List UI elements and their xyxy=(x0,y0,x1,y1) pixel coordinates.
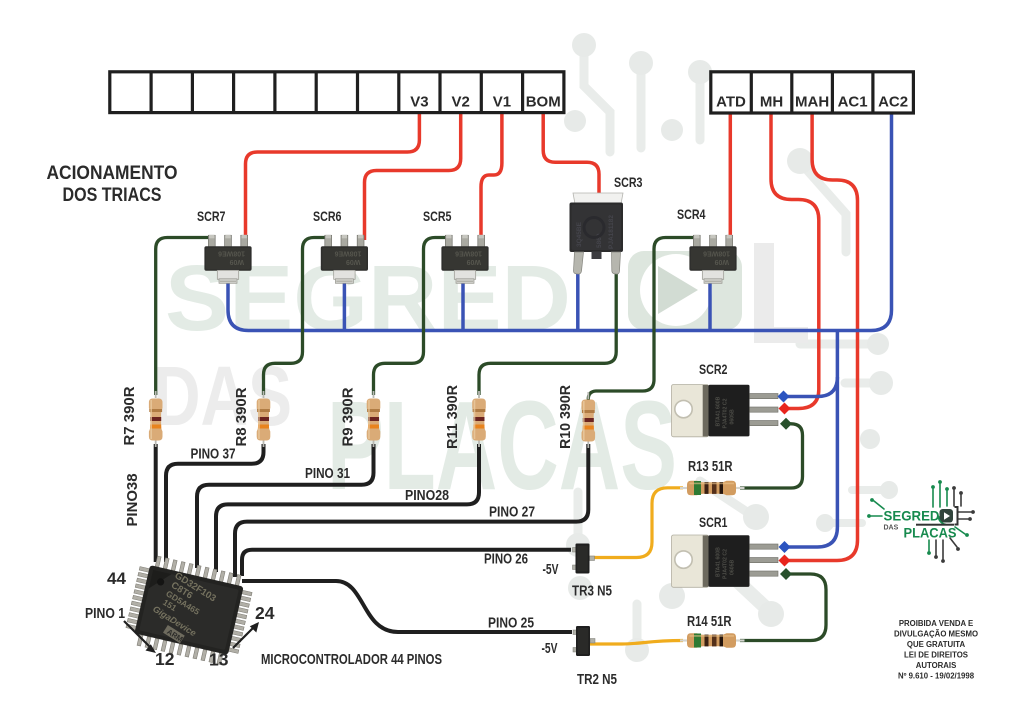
node blue SCR1 pin1 xyxy=(778,541,790,553)
svg-text:SCR1: SCR1 xyxy=(699,514,728,530)
wire red ATD to SCR4 xyxy=(729,111,733,240)
svg-text:3Q45BE: 3Q45BE xyxy=(576,221,583,247)
svg-text:BOM: BOM xyxy=(526,94,561,111)
svg-text:SCR4: SCR4 xyxy=(677,206,706,222)
svg-text:V3: V3 xyxy=(410,94,428,111)
svg-text:SEGRED: SEGRED xyxy=(884,508,940,524)
svg-text:PROIBIDA VENDA E: PROIBIDA VENDA E xyxy=(899,619,973,628)
svg-text:24: 24 xyxy=(255,603,275,623)
wire black chip to TR2 PINO 25 xyxy=(242,581,572,632)
svg-text:AC1: AC1 xyxy=(838,94,868,111)
triac SCR7 xyxy=(204,235,251,284)
wire black R7 to chip PINO38 xyxy=(154,444,158,562)
svg-text:12: 12 xyxy=(155,649,175,669)
svg-text:DIVULGAÇÃO MESMO: DIVULGAÇÃO MESMO xyxy=(894,630,978,639)
svg-text:PINO 1: PINO 1 xyxy=(85,605,125,622)
wire blue SCR5 drop xyxy=(461,275,465,331)
svg-text:R13 51R: R13 51R xyxy=(688,459,733,475)
resistor R10 xyxy=(582,392,596,448)
wire black R9 to chip PINO 31 xyxy=(197,444,374,568)
triac SCR5 xyxy=(441,235,488,284)
wire red V1 to SCR5 xyxy=(481,111,502,240)
triac SCR6 xyxy=(321,235,368,284)
svg-text:PLACAS: PLACAS xyxy=(327,375,677,516)
svg-text:PINO 37: PINO 37 xyxy=(191,447,236,463)
svg-text:-5V: -5V xyxy=(542,641,558,657)
wire black R8 to chip PINO 37 xyxy=(166,444,264,562)
wire green SCR6 gate to R8 xyxy=(264,238,330,396)
svg-text:PINO 25: PINO 25 xyxy=(488,616,534,632)
thyristor SCR1 TO-220 xyxy=(672,535,779,587)
resistor R9 xyxy=(367,391,381,447)
node green SCR1 pin3 xyxy=(780,568,792,580)
wire red MAH to SCR1 xyxy=(787,111,858,561)
svg-text:MICROCONTROLADOR 44 PINOS: MICROCONTROLADOR 44 PINOS xyxy=(261,651,442,668)
svg-text:R9 390R: R9 390R xyxy=(341,387,357,447)
svg-text:13: 13 xyxy=(209,650,229,670)
wire green SCR1 gate to R14 xyxy=(740,574,826,641)
svg-text:TR2 N5: TR2 N5 xyxy=(577,672,617,688)
wire blue SCR3 drop xyxy=(576,268,580,331)
node red SCR1 pin2 xyxy=(778,554,790,566)
svg-text:PINO 31: PINO 31 xyxy=(305,466,350,482)
wire green SCR2 gate to R13 xyxy=(740,424,803,488)
svg-text:MAH: MAH xyxy=(795,94,829,111)
svg-text:SCR2: SCR2 xyxy=(699,361,728,377)
svg-text:SCR6: SCR6 xyxy=(313,208,342,224)
wire red BOM to SCR3 xyxy=(543,111,599,198)
triac SCR3 D-PAK xyxy=(570,193,624,274)
thyristor SCR2 TO-220 xyxy=(672,385,779,437)
wire yellow TR2 to R14 xyxy=(586,641,683,645)
wire red MH to SCR2 xyxy=(771,111,819,409)
resistor R7 xyxy=(149,391,163,447)
node red SCR2 pin2 xyxy=(778,402,790,414)
wire blue branch to SCR2 xyxy=(786,377,837,397)
svg-text:44: 44 xyxy=(107,569,126,588)
wire green SCR3 gate to R11 xyxy=(479,268,616,395)
svg-text:R10 390R: R10 390R xyxy=(558,384,574,449)
svg-text:SCR7: SCR7 xyxy=(197,208,226,224)
resistor R11 xyxy=(472,391,486,447)
svg-text:R14 51R: R14 51R xyxy=(687,614,732,630)
wire black R10 to chip PINO 27 xyxy=(235,444,588,577)
svg-text:PINO28: PINO28 xyxy=(405,488,449,504)
wire blue SCR4 drop xyxy=(708,276,712,331)
wire green SCR5 gate to R9 xyxy=(374,238,450,396)
node blue SCR2 pin1 xyxy=(777,390,789,402)
svg-text:DOS TRIACS: DOS TRIACS xyxy=(63,184,162,206)
resistor R13 xyxy=(680,481,745,495)
transistor TR2 xyxy=(573,626,595,656)
wire black R11 to chip PINO28 xyxy=(216,444,479,572)
wire black chip to TR3 PINO 26 xyxy=(242,550,571,576)
svg-text:R7 390R: R7 390R xyxy=(122,386,138,446)
svg-text:ACIONAMENTO: ACIONAMENTO xyxy=(47,162,178,184)
triac SCR4 xyxy=(689,235,736,284)
connector J1 left xyxy=(110,72,564,113)
svg-text:-5V: -5V xyxy=(543,562,559,578)
watermark SEGREDO DAS PLACAS xyxy=(153,243,808,516)
svg-text:AC2: AC2 xyxy=(878,94,908,111)
svg-text:ATD: ATD xyxy=(716,94,746,111)
wire blue SCR6 drop xyxy=(343,275,347,331)
svg-text:SCR3: SCR3 xyxy=(614,174,643,190)
arrow PINO 1 to 12 xyxy=(124,621,150,647)
svg-text:PINO 27: PINO 27 xyxy=(489,505,535,521)
wire green SCR7 gate to R7 xyxy=(156,238,213,396)
wire red V2 to SCR6 xyxy=(365,111,461,240)
svg-text:V2: V2 xyxy=(452,94,470,111)
svg-text:LEI DE DIREITOS: LEI DE DIREITOS xyxy=(904,651,968,660)
wire blue bus AC2 to SCR7 xyxy=(228,111,892,331)
background pcb decorations xyxy=(578,46,884,640)
svg-text:V1: V1 xyxy=(493,94,511,111)
svg-text:QUE GRATUITA: QUE GRATUITA xyxy=(907,640,966,649)
svg-text:R8 390R: R8 390R xyxy=(234,387,250,447)
resistor R8 xyxy=(257,391,271,447)
svg-text:DAS: DAS xyxy=(884,525,899,532)
transistor TR3 xyxy=(573,544,595,574)
wire blue bus to SCR1 xyxy=(787,331,837,548)
node green SCR2 pin3 xyxy=(780,418,792,430)
logo SEGREDO DAS PLACAS xyxy=(867,480,975,563)
svg-text:PJA181182: PJA181182 xyxy=(608,215,615,249)
resistor R14 xyxy=(680,633,745,647)
wire red V3 to SCR7 xyxy=(246,111,420,240)
svg-text:Nº 9.610 - 19/02/1998: Nº 9.610 - 19/02/1998 xyxy=(898,672,975,681)
svg-text:TR3 N5: TR3 N5 xyxy=(572,584,612,600)
wire yellow TR3 to R13 xyxy=(586,488,684,558)
arrow 13 to 24 xyxy=(233,627,254,648)
svg-text:MH: MH xyxy=(760,94,783,111)
svg-text:AUTORAIS: AUTORAIS xyxy=(916,661,957,670)
svg-text:SCR5: SCR5 xyxy=(423,208,452,224)
svg-text:PLACAS: PLACAS xyxy=(904,526,957,541)
copyright note xyxy=(894,619,978,681)
connector J2 right xyxy=(711,72,914,113)
microcontroller U1 QFP-44 xyxy=(123,553,256,668)
wire green SCR4 gate to R10 xyxy=(588,238,697,402)
svg-text:R11 390R: R11 390R xyxy=(445,384,461,449)
svg-text:PINO38: PINO38 xyxy=(125,474,141,527)
svg-text:PINO 26: PINO 26 xyxy=(484,552,528,568)
